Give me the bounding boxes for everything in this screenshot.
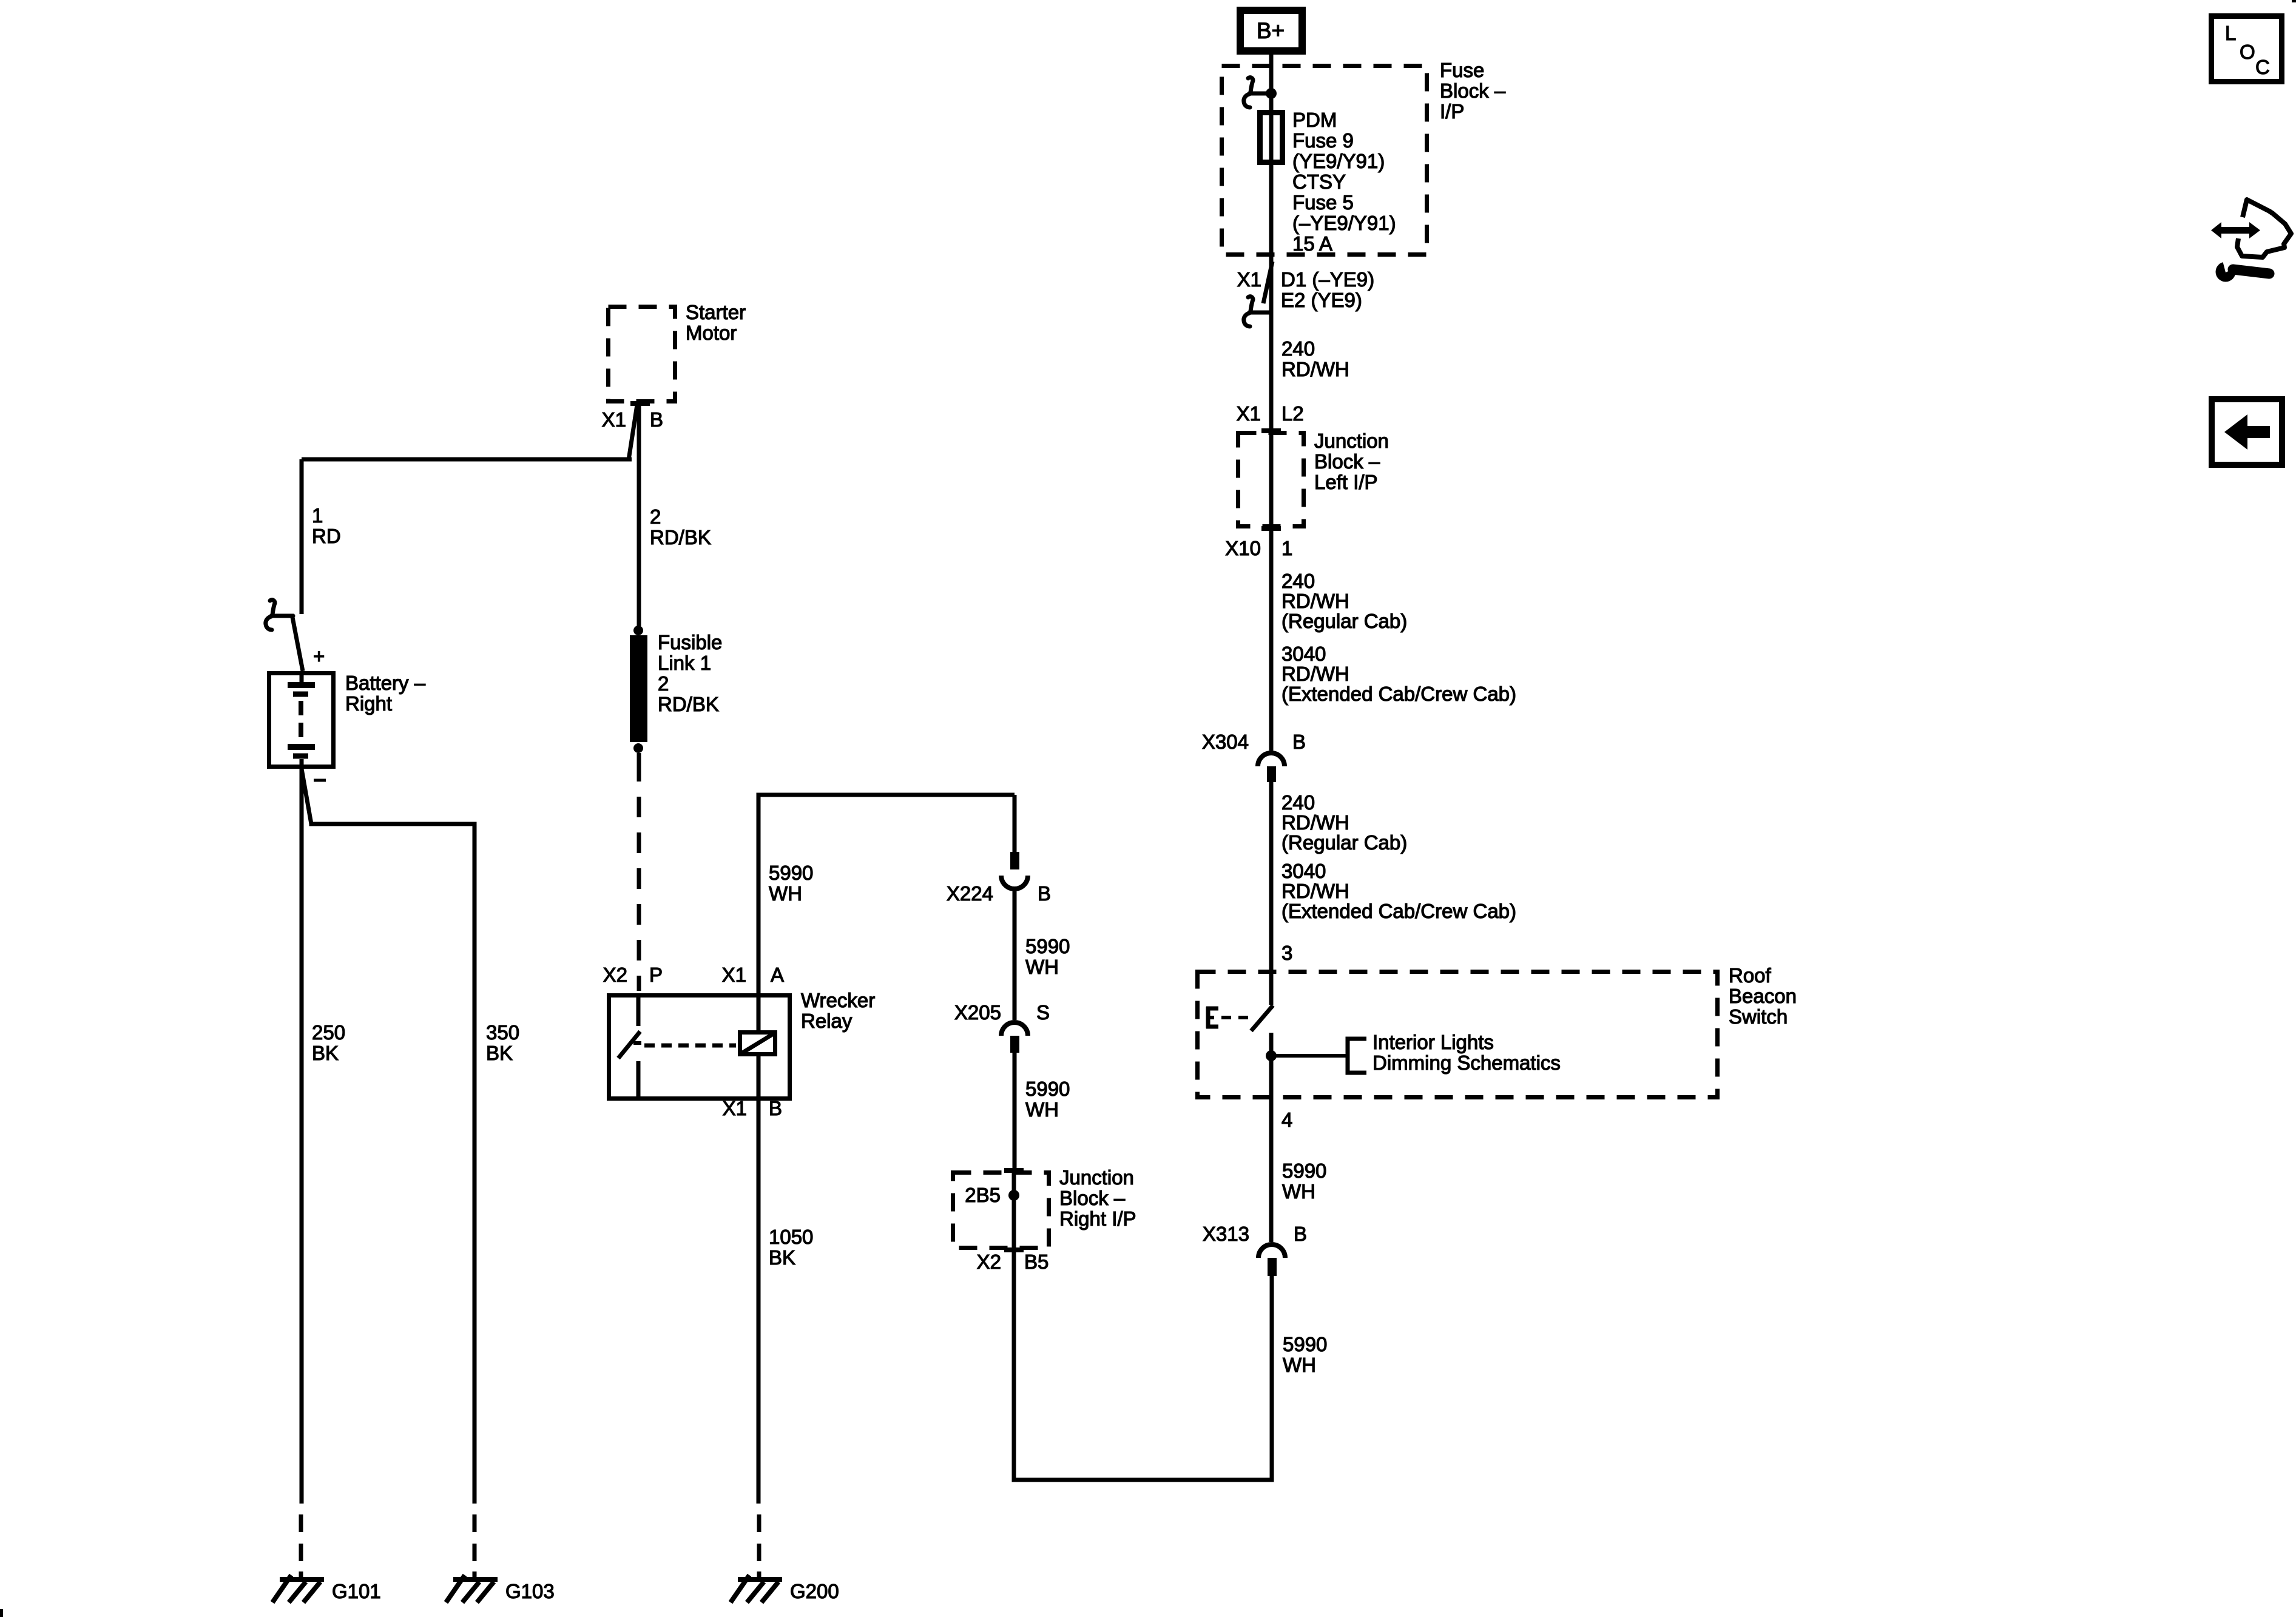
junction block left I/P dashed box [1238, 433, 1304, 527]
svg-text:WH: WH [1282, 1180, 1315, 1203]
wire bottom run to junction block right [1012, 1478, 1274, 1482]
node 2B5 junction [1008, 1190, 1019, 1201]
svg-text:2: 2 [658, 672, 669, 695]
svg-text:5990: 5990 [1025, 1078, 1070, 1100]
svg-text:Dimming Schematics: Dimming Schematics [1373, 1052, 1561, 1074]
fuse block I/P dashed box [1222, 66, 1427, 255]
battery Battery-Right box [269, 673, 334, 767]
icon LOC locator box [2212, 16, 2282, 82]
svg-text:B: B [650, 408, 663, 431]
svg-text:G101: G101 [332, 1580, 381, 1602]
wire through junction block left [1269, 431, 1274, 528]
page corner marks [0, 1609, 3, 1617]
svg-text:X1: X1 [1237, 268, 1261, 291]
svg-text:Left I/P: Left I/P [1314, 471, 1378, 493]
svg-text:(Regular Cab): (Regular Cab) [1281, 831, 1407, 854]
wire tap to interior lights dimming [1271, 1054, 1346, 1058]
svg-text:L: L [2225, 22, 2236, 44]
wire 1050 BK relay to ground [757, 1101, 761, 1504]
svg-text:X304: X304 [1202, 731, 1249, 753]
wire B+ to fuse block [1269, 55, 1274, 112]
svg-text:5990: 5990 [769, 862, 813, 884]
svg-text:WH: WH [1025, 956, 1059, 978]
svg-text:15 A: 15 A [1292, 232, 1332, 255]
svg-text:Switch: Switch [1729, 1005, 1788, 1028]
svg-text:I/P: I/P [1440, 100, 1464, 123]
svg-text:G103: G103 [505, 1580, 555, 1602]
svg-text:(–YE9/Y91): (–YE9/Y91) [1292, 212, 1396, 234]
junction block right I/P dashed box [953, 1173, 1049, 1248]
svg-text:BK: BK [486, 1042, 513, 1064]
wire G101 dashed lead [299, 1514, 303, 1532]
svg-text:X1: X1 [1237, 402, 1261, 425]
svg-text:1050: 1050 [769, 1226, 813, 1248]
label battery minus [314, 779, 326, 782]
svg-text:+: + [313, 645, 325, 667]
svg-text:Block –: Block – [1314, 450, 1380, 473]
svg-text:Starter: Starter [686, 301, 746, 323]
svg-text:RD/WH: RD/WH [1281, 880, 1349, 902]
svg-text:A: A [771, 964, 784, 986]
svg-text:Relay: Relay [801, 1010, 853, 1032]
svg-text:Right I/P: Right I/P [1059, 1207, 1136, 1230]
svg-text:240: 240 [1281, 570, 1315, 592]
wire relay contact X1 A-B [757, 795, 761, 1101]
wire X224 to X205 [1013, 891, 1017, 1020]
svg-text:5990: 5990 [1283, 1333, 1327, 1355]
svg-text:3: 3 [1281, 942, 1292, 964]
svg-text:D1 (–YE9): D1 (–YE9) [1281, 268, 1374, 291]
svg-text:Fuse 5: Fuse 5 [1292, 191, 1354, 214]
svg-text:P: P [649, 964, 663, 986]
wire X205 to junction block right [1013, 1053, 1017, 1170]
svg-text:Link 1: Link 1 [658, 652, 711, 674]
fuse PDM Fuse 9 CTSY Fuse 5 15A [1269, 110, 1274, 165]
svg-text:(YE9/Y91): (YE9/Y91) [1292, 150, 1385, 172]
starter motor dashed box [609, 307, 675, 402]
svg-text:X1: X1 [722, 964, 746, 986]
svg-text:X10: X10 [1225, 537, 1261, 559]
wire junction block to X304 [1269, 528, 1274, 751]
bracket interior lights dimming schematics [1348, 1039, 1366, 1073]
ground G103 [446, 1575, 498, 1602]
svg-text:Block –: Block – [1440, 79, 1506, 102]
node junction at fuse input [1266, 88, 1277, 99]
connector hook below fuse block [1244, 297, 1271, 326]
wire X224 upper lead [1013, 795, 1017, 852]
svg-text:5990: 5990 [1282, 1160, 1326, 1182]
icon back arrow box [2212, 399, 2282, 465]
svg-text:X313: X313 [1203, 1223, 1249, 1245]
svg-text:S: S [1036, 1001, 1050, 1024]
svg-text:B5: B5 [1024, 1251, 1048, 1273]
svg-text:WH: WH [769, 882, 802, 905]
svg-text:B: B [1038, 882, 1051, 905]
wrecker relay box [609, 996, 790, 1099]
svg-text:Junction: Junction [1059, 1166, 1134, 1189]
wire G200 dashed lead [757, 1514, 761, 1532]
wire battery negative split [300, 769, 304, 1504]
wire 5990 WH top run [758, 793, 1015, 797]
wire G103 dashed lead [473, 1514, 477, 1532]
connector slash battery positive [292, 614, 303, 671]
svg-text:B: B [769, 1097, 782, 1119]
svg-text:B: B [1292, 731, 1306, 753]
svg-text:RD/WH: RD/WH [1281, 590, 1349, 612]
svg-text:X2: X2 [977, 1251, 1001, 1273]
svg-text:X1: X1 [602, 408, 626, 431]
svg-text:Fuse 9: Fuse 9 [1292, 129, 1354, 152]
connector hook at fuse block feed [1244, 78, 1271, 107]
wire battery positive 1 RD [302, 457, 632, 462]
svg-text:X1: X1 [723, 1097, 747, 1119]
svg-text:2B5: 2B5 [965, 1184, 1001, 1206]
svg-text:B+: B+ [1257, 18, 1285, 43]
roof beacon switch dashed box [1198, 972, 1718, 1098]
svg-text:L2: L2 [1281, 402, 1304, 425]
svg-text:240: 240 [1281, 337, 1315, 360]
svg-text:240: 240 [1281, 791, 1315, 814]
connector slash starter X1 B [629, 405, 637, 460]
svg-text:Battery –: Battery – [345, 672, 426, 694]
svg-text:Wrecker: Wrecker [801, 989, 875, 1011]
svg-text:RD/BK: RD/BK [650, 526, 711, 549]
battery cell plates [300, 671, 304, 682]
relay switch blade [636, 996, 641, 1026]
svg-text:G200: G200 [790, 1580, 839, 1602]
svg-text:3040: 3040 [1281, 860, 1326, 882]
svg-text:X2: X2 [603, 964, 627, 986]
svg-text:5990: 5990 [1025, 935, 1070, 957]
svg-text:Interior Lights: Interior Lights [1373, 1031, 1494, 1053]
svg-text:Fusible: Fusible [658, 631, 722, 653]
B+ battery feed terminal [1240, 10, 1302, 51]
svg-text:(Regular Cab): (Regular Cab) [1281, 610, 1407, 632]
svg-text:X224: X224 [947, 882, 993, 905]
wire relay coil feed dashed [637, 761, 641, 991]
icon service information arrow wrench [2211, 222, 2260, 238]
wire junction block right down [1012, 1250, 1016, 1482]
svg-text:Right: Right [345, 692, 392, 715]
node switch output junction [1266, 1050, 1277, 1061]
svg-text:C: C [2255, 56, 2270, 78]
svg-text:Block –: Block – [1059, 1187, 1126, 1209]
svg-text:X205: X205 [954, 1001, 1001, 1024]
wire X304 to roof beacon switch [1269, 782, 1274, 970]
svg-text:CTSY: CTSY [1292, 170, 1346, 193]
svg-text:BK: BK [769, 1246, 795, 1269]
svg-text:WH: WH [1283, 1354, 1316, 1376]
svg-text:RD: RD [312, 525, 341, 547]
relay coil [740, 1033, 775, 1055]
wire X313 down [1270, 1276, 1274, 1480]
wire starter to fusible link 2 RD/BK [637, 404, 641, 630]
svg-text:Junction: Junction [1314, 430, 1389, 452]
wire fuse to junction block left [1269, 165, 1274, 431]
svg-text:Motor: Motor [686, 322, 737, 344]
svg-text:1: 1 [1281, 537, 1292, 559]
fusible link 1 [633, 626, 643, 635]
svg-text:RD/WH: RD/WH [1281, 811, 1349, 834]
svg-text:E2 (YE9): E2 (YE9) [1281, 289, 1362, 311]
switch actuator E link [1206, 1007, 1218, 1028]
svg-text:BK: BK [312, 1042, 339, 1064]
wire switch to X313 [1269, 1099, 1274, 1242]
pin X1 D1/E2 connector slash [1263, 262, 1272, 303]
wire through junction block right [1012, 1170, 1016, 1250]
svg-text:RD/BK: RD/BK [658, 693, 719, 715]
switch blade roof beacon [1269, 970, 1274, 1005]
svg-text:O: O [2240, 41, 2255, 63]
svg-text:WH: WH [1025, 1098, 1059, 1121]
wire switch output [1269, 1033, 1274, 1099]
svg-text:RD/WH: RD/WH [1281, 663, 1349, 685]
svg-text:3040: 3040 [1281, 643, 1326, 665]
svg-text:1: 1 [312, 504, 323, 527]
connector hook at battery positive [266, 600, 293, 630]
svg-text:RD/WH: RD/WH [1281, 358, 1349, 380]
svg-text:Fuse: Fuse [1440, 59, 1484, 81]
ground G101 [272, 1575, 324, 1602]
relay actuator dashed link [644, 1044, 736, 1048]
connector X224 B [1010, 852, 1019, 869]
svg-text:250: 250 [312, 1021, 345, 1044]
svg-text:4: 4 [1281, 1109, 1292, 1131]
svg-text:B: B [1294, 1223, 1307, 1245]
svg-text:(Extended Cab/Crew Cab): (Extended Cab/Crew Cab) [1281, 900, 1516, 922]
svg-text:350: 350 [486, 1021, 519, 1044]
ground G200 [731, 1575, 782, 1602]
svg-text:Beacon: Beacon [1729, 985, 1797, 1007]
svg-text:PDM: PDM [1292, 109, 1337, 131]
svg-text:2: 2 [650, 505, 661, 528]
svg-text:Roof: Roof [1729, 964, 1772, 987]
svg-text:(Extended Cab/Crew Cab): (Extended Cab/Crew Cab) [1281, 683, 1516, 705]
